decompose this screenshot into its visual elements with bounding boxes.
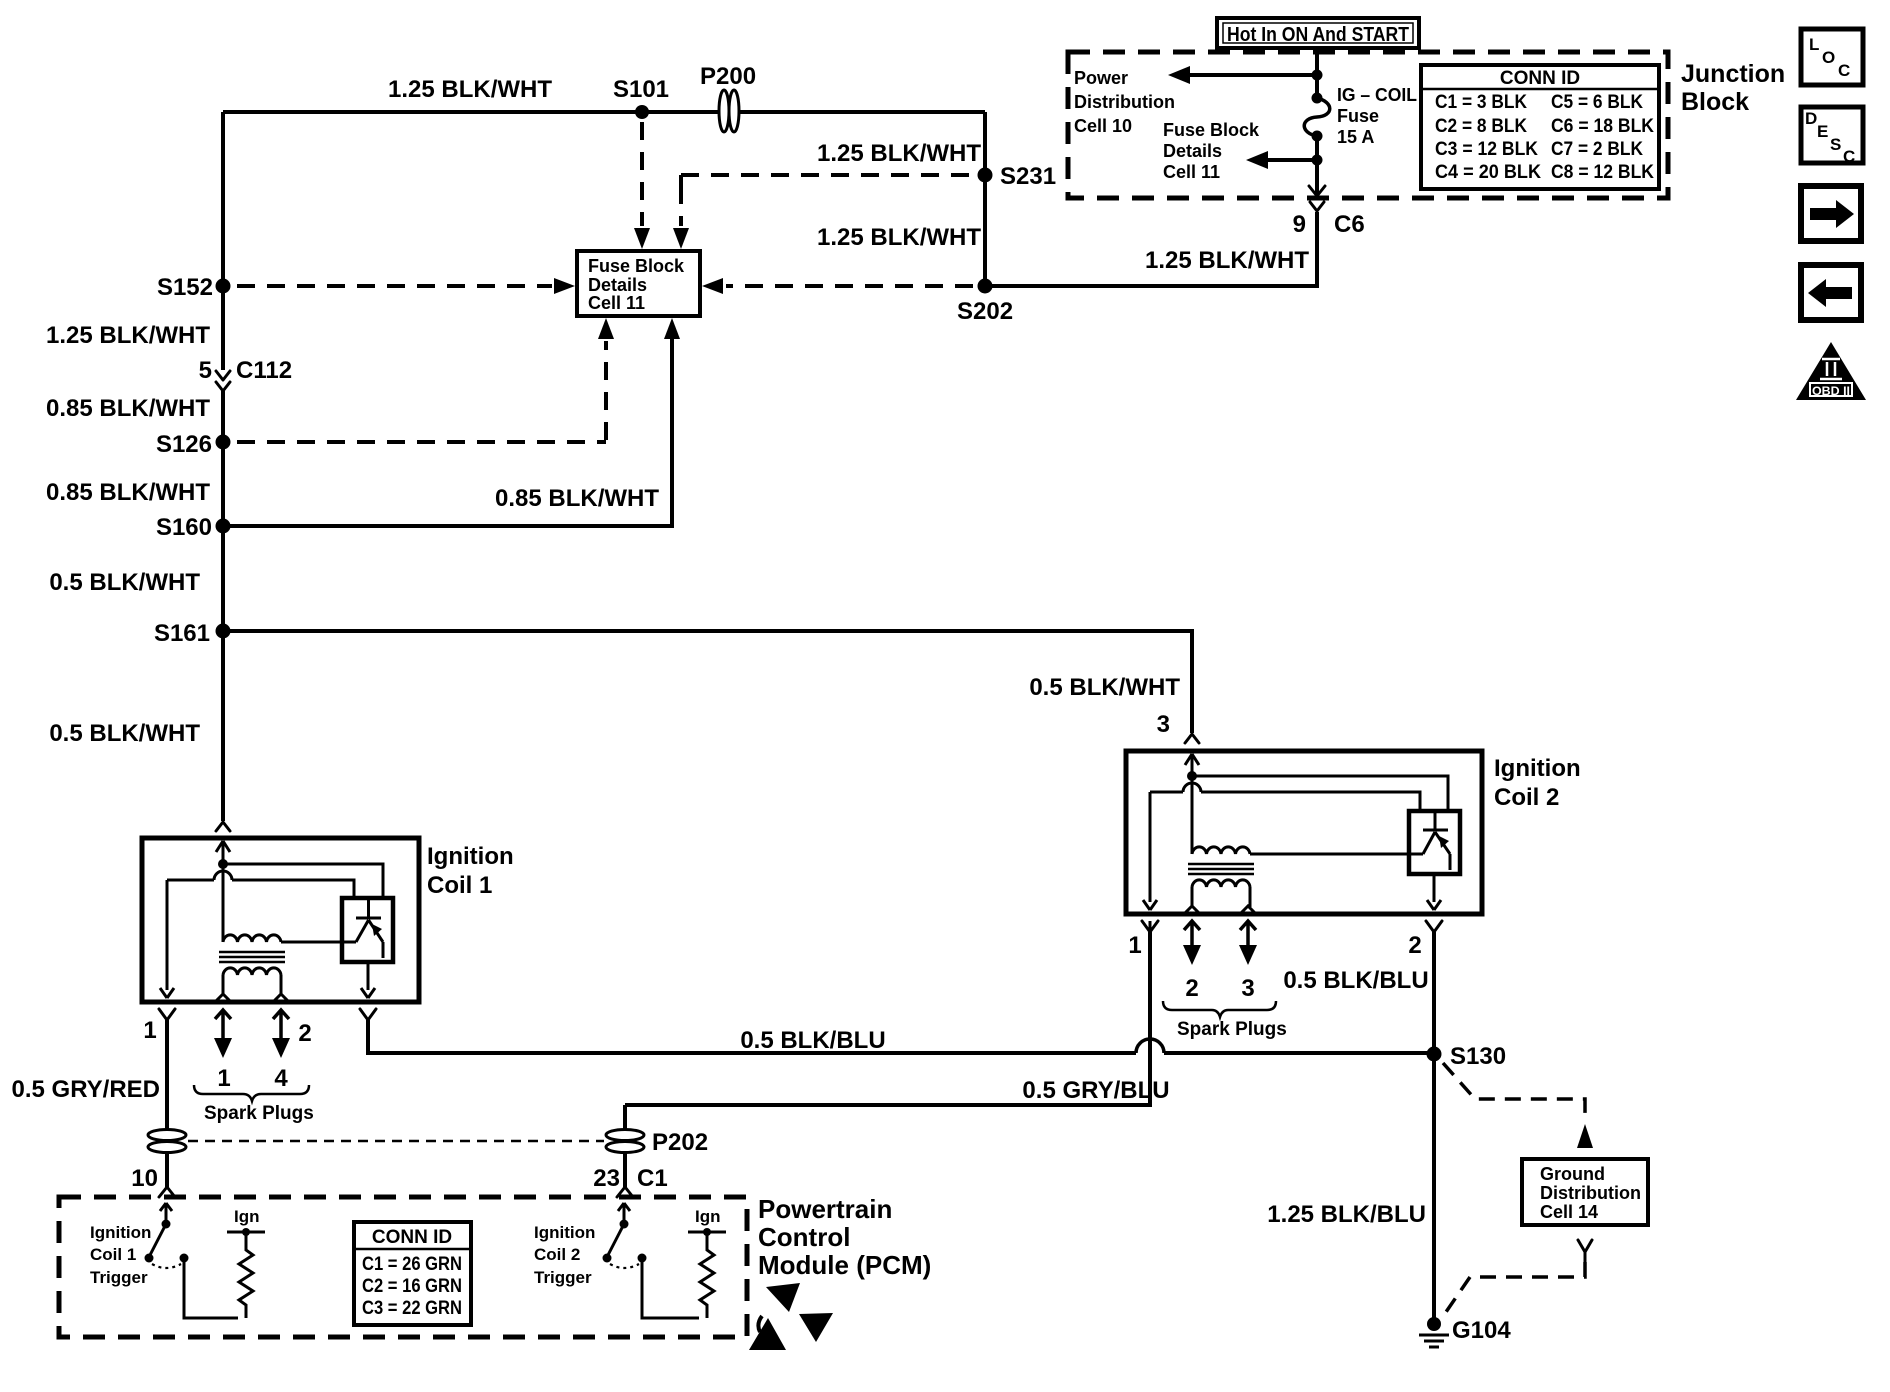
svg-text:2: 2: [1408, 932, 1421, 959]
svg-text:C6: C6: [1334, 211, 1365, 238]
svg-text:0.85 BLK/WHT: 0.85 BLK/WHT: [46, 479, 210, 506]
svg-text:O: O: [1822, 48, 1835, 67]
svg-text:S161: S161: [154, 620, 210, 647]
svg-text:P200: P200: [700, 63, 756, 90]
svg-text:Coil 2: Coil 2: [534, 1245, 580, 1264]
svg-text:Ignition: Ignition: [427, 843, 514, 870]
svg-text:0.5 BLK/WHT: 0.5 BLK/WHT: [49, 569, 200, 596]
svg-text:0.5 BLK/WHT: 0.5 BLK/WHT: [49, 720, 200, 747]
svg-text:Fuse Block: Fuse Block: [588, 256, 685, 276]
svg-text:Distribution: Distribution: [1074, 92, 1175, 112]
svg-text:C: C: [1843, 147, 1855, 166]
svg-text:9: 9: [1293, 211, 1306, 238]
svg-text:S202: S202: [957, 298, 1013, 325]
svg-text:Fuse Block: Fuse Block: [1163, 120, 1260, 140]
svg-text:Spark Plugs: Spark Plugs: [1177, 1019, 1287, 1040]
svg-text:C7 = 2 BLK: C7 = 2 BLK: [1551, 139, 1643, 160]
svg-text:CONN ID: CONN ID: [1500, 68, 1580, 89]
svg-text:0.5 BLK/WHT: 0.5 BLK/WHT: [1029, 674, 1180, 701]
svg-text:0.5 BLK/BLU: 0.5 BLK/BLU: [1283, 967, 1428, 994]
svg-text:Module (PCM): Module (PCM): [758, 1250, 931, 1280]
svg-text:Distribution: Distribution: [1540, 1183, 1641, 1203]
svg-text:1.25 BLK/WHT: 1.25 BLK/WHT: [817, 224, 981, 251]
svg-text:Ignition: Ignition: [534, 1223, 595, 1242]
svg-text:1.25 BLK/WHT: 1.25 BLK/WHT: [46, 322, 210, 349]
svg-text:0.85 BLK/WHT: 0.85 BLK/WHT: [495, 485, 659, 512]
svg-text:0.85 BLK/WHT: 0.85 BLK/WHT: [46, 395, 210, 422]
svg-text:Junction: Junction: [1681, 60, 1785, 88]
svg-text:0.5 GRY/RED: 0.5 GRY/RED: [12, 1076, 161, 1103]
svg-text:Coil 2: Coil 2: [1494, 784, 1559, 811]
svg-text:1.25 BLK/WHT: 1.25 BLK/WHT: [1145, 247, 1309, 274]
svg-text:L: L: [1809, 35, 1819, 54]
svg-text:1: 1: [217, 1065, 230, 1092]
svg-text:0.5 GRY/BLU: 0.5 GRY/BLU: [1022, 1077, 1169, 1104]
svg-text:Control: Control: [758, 1222, 850, 1252]
svg-text:Ignition: Ignition: [90, 1223, 151, 1242]
svg-text:P202: P202: [652, 1129, 708, 1156]
svg-text:2: 2: [298, 1020, 311, 1047]
svg-text:1.25 BLK/WHT: 1.25 BLK/WHT: [388, 76, 552, 103]
svg-text:S231: S231: [1000, 163, 1056, 190]
svg-text:Fuse: Fuse: [1337, 106, 1379, 126]
svg-text:1.25 BLK/BLU: 1.25 BLK/BLU: [1267, 1201, 1426, 1228]
svg-text:C4 = 20 BLK: C4 = 20 BLK: [1435, 162, 1541, 183]
svg-text:3: 3: [1157, 711, 1170, 738]
svg-text:Hot In ON And START: Hot In ON And START: [1227, 24, 1409, 46]
svg-text:Coil 1: Coil 1: [427, 872, 492, 899]
svg-text:C3 = 22 GRN: C3 = 22 GRN: [362, 1298, 462, 1319]
svg-text:10: 10: [131, 1165, 158, 1192]
svg-text:C2 = 16 GRN: C2 = 16 GRN: [362, 1276, 462, 1297]
svg-text:Ground: Ground: [1540, 1164, 1605, 1184]
svg-text:Details: Details: [1163, 141, 1222, 161]
svg-text:C1 = 3 BLK: C1 = 3 BLK: [1435, 92, 1527, 113]
svg-text:OBD II: OBD II: [1812, 384, 1850, 398]
svg-text:Ignition: Ignition: [1494, 755, 1581, 782]
svg-text:0.5 BLK/BLU: 0.5 BLK/BLU: [740, 1027, 885, 1054]
svg-text:C5 = 6 BLK: C5 = 6 BLK: [1551, 92, 1643, 113]
svg-text:Block: Block: [1681, 88, 1749, 116]
svg-text:S: S: [1830, 135, 1841, 154]
svg-text:Trigger: Trigger: [534, 1268, 592, 1287]
svg-text:IG – COIL: IG – COIL: [1337, 85, 1417, 105]
svg-text:5: 5: [199, 357, 212, 384]
svg-text:Cell 14: Cell 14: [1540, 1202, 1598, 1222]
svg-text:Spark Plugs: Spark Plugs: [204, 1103, 314, 1124]
svg-text:C2 = 8 BLK: C2 = 8 BLK: [1435, 116, 1527, 137]
svg-text:23: 23: [593, 1165, 620, 1192]
svg-text:15 A: 15 A: [1337, 127, 1374, 147]
svg-text:D: D: [1805, 109, 1817, 128]
svg-text:CONN ID: CONN ID: [372, 1227, 452, 1248]
svg-text:4: 4: [274, 1065, 288, 1092]
svg-text:C: C: [1838, 61, 1850, 80]
svg-text:C1: C1: [637, 1165, 668, 1192]
svg-text:S130: S130: [1450, 1043, 1506, 1070]
svg-text:Cell 10: Cell 10: [1074, 116, 1132, 136]
svg-text:E: E: [1817, 122, 1828, 141]
svg-text:Cell 11: Cell 11: [1163, 162, 1220, 182]
svg-text:1.25 BLK/WHT: 1.25 BLK/WHT: [817, 140, 981, 167]
svg-text:C1 = 26 GRN: C1 = 26 GRN: [362, 1254, 462, 1275]
svg-text:Ign: Ign: [234, 1207, 260, 1226]
svg-text:G104: G104: [1452, 1317, 1511, 1344]
svg-text:2: 2: [1185, 975, 1198, 1002]
svg-text:Trigger: Trigger: [90, 1268, 148, 1287]
svg-text:Powertrain: Powertrain: [758, 1194, 892, 1224]
svg-text:C3 = 12 BLK: C3 = 12 BLK: [1435, 139, 1538, 160]
svg-text:C6 = 18 BLK: C6 = 18 BLK: [1551, 116, 1654, 137]
svg-text:S160: S160: [156, 514, 212, 541]
svg-text:S126: S126: [156, 431, 212, 458]
svg-text:Cell 11: Cell 11: [588, 293, 645, 313]
svg-text:Ign: Ign: [695, 1207, 721, 1226]
svg-text:Power: Power: [1074, 68, 1128, 88]
svg-text:S101: S101: [613, 76, 669, 103]
svg-text:S152: S152: [157, 274, 213, 301]
svg-text:C8 = 12 BLK: C8 = 12 BLK: [1551, 162, 1654, 183]
svg-text:1: 1: [143, 1017, 156, 1044]
svg-text:3: 3: [1241, 975, 1254, 1002]
svg-text:Details: Details: [588, 275, 647, 295]
svg-text:C112: C112: [236, 357, 292, 384]
svg-text:Coil 1: Coil 1: [90, 1245, 136, 1264]
svg-text:1: 1: [1128, 932, 1141, 959]
